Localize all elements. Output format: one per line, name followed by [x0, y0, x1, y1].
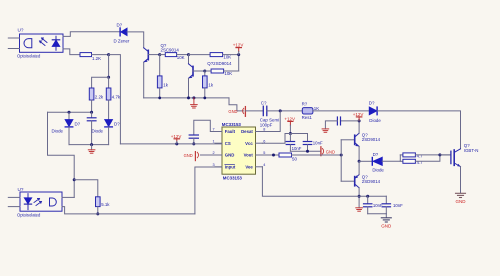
svg-text:1: 1	[212, 139, 214, 143]
capacitor 10nF (right)	[307, 134, 309, 142]
power ground (red, Q4)	[356, 208, 363, 211]
node dot row-cap	[90, 111, 93, 114]
node dot at 1.2K junction	[107, 53, 110, 56]
svg-text:4.7k: 4.7k	[112, 94, 121, 99]
svg-text:2SC9014: 2SC9014	[161, 47, 180, 52]
wire pin5 row	[262, 154, 279, 156]
Vee caps bottom bar	[368, 213, 387, 215]
svg-text:+12V: +12V	[353, 112, 364, 117]
wire GND port to IC pin2	[200, 154, 222, 156]
pin 7 stub	[215, 131, 222, 133]
node dot +12V row	[237, 53, 240, 56]
svg-text:4.7: 4.7	[417, 160, 423, 165]
node dot rail-cap bottom	[90, 143, 93, 146]
transistor Q? IGBT-N	[451, 149, 461, 167]
pin 8 stub	[256, 131, 263, 133]
svg-text:R?: R?	[302, 102, 308, 107]
capacitor (fault filter) plates	[189, 134, 198, 136]
svg-text:Optoisolated: Optoisolated	[17, 213, 41, 218]
svg-text:Input: Input	[225, 165, 236, 170]
svg-text:GND: GND	[225, 153, 235, 158]
svg-text:10nF: 10nF	[313, 141, 323, 146]
svg-text:Q?2SD9014: Q?2SD9014	[207, 61, 232, 66]
svg-text:2SD9014: 2SD9014	[362, 179, 381, 184]
transistor Q2 2SD9014	[189, 64, 205, 79]
svg-text:Vout: Vout	[244, 153, 254, 158]
pin 1 stub	[215, 142, 222, 144]
capacitor 10nF (Vee left)	[367, 196, 369, 203]
svg-text:MC33153: MC33153	[222, 122, 242, 127]
svg-text:1K: 1K	[314, 106, 319, 111]
wire Q3 collector to +12V node	[358, 121, 360, 133]
svg-text:U?: U?	[18, 187, 24, 192]
svg-text:U?: U?	[18, 28, 24, 33]
resistor 1k (Q2 base pulldown)	[204, 71, 206, 76]
svg-text:GND: GND	[184, 153, 193, 158]
svg-text:10K: 10K	[224, 71, 232, 76]
wire junction to CS drop	[109, 55, 121, 144]
Vcc bottom bar to GND port	[290, 150, 320, 152]
pin 3 stub	[215, 166, 222, 168]
wire opto1 left pin 2	[8, 48, 19, 50]
node dot output	[358, 160, 361, 163]
capacitor between diodes	[91, 112, 93, 117]
wire pin7 loop up-left	[194, 120, 215, 134]
resistor 10K (Q1 base to Q2)	[160, 54, 166, 56]
svg-text:10K: 10K	[223, 55, 231, 60]
svg-text:Vcc: Vcc	[245, 141, 253, 146]
svg-text:GND: GND	[228, 109, 237, 114]
node dot desat	[279, 109, 282, 112]
svg-text:10nF: 10nF	[393, 203, 403, 208]
svg-text:IGBT-N: IGBT-N	[464, 148, 479, 153]
node dot Q1 base	[158, 53, 161, 56]
svg-text:D?: D?	[75, 122, 81, 127]
svg-text:Res1: Res1	[302, 115, 313, 120]
wire jog to left resistor	[92, 77, 109, 88]
svg-text:Vee: Vee	[245, 165, 253, 170]
node row wire	[48, 111, 92, 113]
decoupling capacitor (push-pull rail)	[341, 120, 360, 122]
svg-text:D?: D?	[373, 152, 379, 157]
SECTION: opto1	[8, 28, 120, 144]
svg-text:+12V: +12V	[233, 43, 244, 48]
power +12V (mid-left)	[175, 142, 178, 145]
wire Q4 collector down to Vee rail and ground	[358, 188, 360, 208]
resistor 4.7 (top)	[400, 154, 403, 156]
wire 4.7k to diode	[108, 100, 110, 119]
svg-text:D Zener: D Zener	[114, 39, 130, 44]
resistor 10K (pullup Q1 side)	[189, 54, 211, 56]
wire pin4 to Vee rail	[262, 167, 386, 196]
resistor 4.7k body	[108, 77, 110, 88]
node dot rail-Q2e	[187, 96, 190, 99]
Vcc top bar	[285, 133, 308, 135]
opto2 photodetector	[50, 198, 57, 206]
SECTION: divider-diodes	[48, 55, 121, 198]
zener diode D? triangle	[121, 28, 127, 35]
svg-text:3: 3	[212, 163, 214, 167]
svg-text:100pF: 100pF	[260, 122, 273, 127]
svg-text:Diode: Diode	[369, 118, 381, 123]
svg-text:2.2k: 2.2k	[95, 94, 104, 99]
wire node row down-left to opto2	[48, 112, 75, 197]
wire gate node to IGBT	[440, 154, 451, 156]
power port GND (red, Vcc network)	[320, 147, 322, 156]
node dot pin5	[272, 154, 275, 157]
node dot cap to CS row	[192, 142, 195, 145]
wire opto2 left pin 1	[8, 196, 20, 198]
power +12V (top)	[238, 48, 240, 52]
svg-text:D?: D?	[117, 23, 123, 28]
svg-text:CS: CS	[225, 141, 231, 146]
wire opto1 left pin 1	[8, 37, 19, 39]
svg-text:C?: C?	[261, 100, 267, 105]
wire 50 to base line	[292, 154, 342, 156]
optocoupler U? (bottom-left) body	[20, 192, 62, 211]
svg-text:4.7: 4.7	[417, 153, 423, 158]
svg-text:50: 50	[292, 156, 297, 161]
svg-text:Diode: Diode	[92, 128, 104, 133]
svg-text:2SD9014: 2SD9014	[362, 137, 381, 142]
wire Q3 emitter to output node	[358, 146, 360, 161]
svg-text:MC33153: MC33153	[223, 176, 243, 181]
wire Q1 emitter to rail	[143, 62, 145, 98]
diode D? (gate discharge, pointing left)	[359, 160, 372, 162]
diode D? (right, pointing down)	[105, 120, 113, 127]
earth ground (IGBT)	[456, 193, 466, 197]
pin 2 stub	[215, 154, 222, 156]
svg-text:1k: 1k	[208, 83, 213, 88]
svg-text:Diode: Diode	[52, 128, 64, 133]
SECTION: opto2	[8, 152, 222, 218]
svg-text:D?: D?	[114, 122, 120, 127]
transistor Q3 2SD9014 (top of push-pull)	[341, 133, 359, 146]
resistor 50 body	[279, 153, 292, 157]
wire desat node down to pin8	[262, 111, 280, 132]
resistor 10K (pullup Q2 base)	[205, 70, 211, 72]
pin 6 stub	[256, 142, 263, 144]
wire C? to desat node	[267, 110, 303, 112]
capacitor 10nF (left)	[289, 134, 291, 142]
SECTION: ic	[120, 120, 265, 180]
ground rail under Q1/Q2	[144, 97, 229, 99]
node dot Vcc top bar	[289, 132, 292, 135]
node dot base line	[340, 154, 343, 157]
svg-text:1.2K: 1.2K	[92, 56, 101, 61]
svg-text:Optoisolated: Optoisolated	[17, 53, 41, 58]
transistor Q4 2SD9014 (bottom of push-pull, PNP)	[341, 175, 359, 188]
pin 4 stub	[256, 166, 263, 168]
resistor R 1.2K body	[80, 53, 92, 57]
resistor 5.1k body	[96, 197, 101, 207]
SECTION: zener-q1q2	[114, 23, 246, 117]
power ground (red) below diode rail	[88, 145, 95, 154]
node dot Q2 base	[203, 70, 206, 73]
node dot Vee rail	[358, 195, 361, 198]
wire IGBT emitter to ground	[460, 167, 462, 193]
svg-text:GND: GND	[381, 224, 392, 229]
optocoupler U? photodetector	[24, 39, 32, 48]
zener diode D? cathode bar	[119, 28, 121, 36]
wire junction down to divider	[108, 55, 110, 78]
node dot divider jog	[107, 76, 110, 79]
node dot +12V collector	[358, 119, 361, 122]
transistor Q1 2SC9014	[144, 48, 160, 62]
wire rail to GND port (staircase)	[229, 98, 243, 111]
node dot collector junction	[73, 178, 76, 181]
resistor 2.2k body	[89, 88, 94, 100]
wire junction to pulldown resistor	[74, 180, 98, 197]
node dot on bottom rail	[96, 212, 99, 215]
wire diode to 4.7 resistors	[382, 155, 400, 161]
wire output node to Q4 emitter	[358, 161, 360, 174]
svg-text:+12V: +12V	[284, 116, 295, 121]
SECTION: right	[245, 100, 478, 228]
capacitor C? Cap Semi 100pF	[262, 106, 264, 115]
diode D? (left, pointing down)	[68, 112, 70, 119]
svg-text:1k: 1k	[163, 83, 168, 88]
svg-text:10nF: 10nF	[292, 146, 302, 151]
optocoupler U?(top-left) body	[20, 34, 64, 52]
node dot cap tap	[366, 195, 369, 198]
wire opto1 top-right pin to zener row	[63, 32, 120, 37]
svg-text:10K: 10K	[177, 55, 185, 60]
wire +12V feed vertical	[238, 55, 240, 71]
diode D? (desat, pointing right)	[369, 107, 376, 115]
svg-text:5.1k: 5.1k	[101, 202, 110, 207]
svg-text:D?: D?	[369, 101, 375, 106]
svg-text:GND: GND	[326, 149, 335, 154]
svg-text:Diode: Diode	[372, 167, 384, 172]
node dot Q2 collector junction	[187, 53, 190, 56]
node dot rail-1k	[158, 97, 161, 100]
resistor R? Res1 body	[302, 108, 313, 114]
opto2 light arrows	[34, 199, 42, 206]
wire diode to IGBT collector	[377, 111, 460, 149]
power ground (red, decoupling)	[322, 129, 329, 132]
wire Res1 to desat diode	[313, 110, 369, 112]
svg-text:GND: GND	[456, 199, 467, 204]
capacitor 10nF (Vee right)	[385, 196, 387, 203]
svg-text:2: 2	[212, 151, 214, 155]
node dot rail-1k2	[203, 97, 206, 100]
power ground (red) under rail	[191, 98, 198, 108]
wire 2.2k to node row	[91, 100, 93, 112]
optocoupler U? LED (cathode bar + triangle)	[52, 39, 59, 41]
bottom rail of diode network	[69, 144, 109, 146]
wire to Q2 collector	[188, 55, 190, 64]
wire rail up to IC pin3	[195, 167, 222, 214]
power +12V (push-pull)	[356, 116, 361, 118]
svg-text:+12V: +12V	[171, 134, 182, 139]
wire Q2 emitter to rail	[188, 78, 190, 98]
op-amp/driver U MC33153 body	[222, 127, 256, 174]
svg-text:Fault: Fault	[225, 129, 236, 134]
wire resistor to node	[92, 54, 109, 56]
optocoupler U? light arrows	[40, 38, 48, 46]
svg-text:4: 4	[263, 163, 265, 167]
wire opto2 top-right pin	[62, 196, 74, 198]
svg-text:Desat: Desat	[241, 129, 253, 134]
base line vertical	[340, 140, 342, 181]
wire top bar to pin6	[262, 134, 285, 144]
pin 5 stub	[256, 154, 263, 156]
node dot gate	[438, 153, 441, 156]
wire CS row (pin1)	[120, 143, 222, 145]
wire GND port to C?	[245, 110, 263, 112]
node dot row-diode	[68, 111, 71, 114]
wire opto2 left pin 2	[8, 206, 20, 208]
resistor 1k (Q1 base pulldown)	[159, 55, 161, 76]
wire opto1 bottom-right pin to resistor row	[63, 49, 80, 55]
node dot bottom bar	[306, 150, 309, 153]
wire zener anode to Q1 collector	[127, 32, 144, 48]
opto2 LED (triangle + bar)	[27, 194, 29, 198]
resistor 4.7 (bottom)	[400, 160, 403, 162]
wire opto2 bottom pin to long rail	[62, 207, 195, 214]
node dot rail-gnd tap	[192, 96, 195, 99]
earth ground (Vee)	[385, 214, 387, 218]
